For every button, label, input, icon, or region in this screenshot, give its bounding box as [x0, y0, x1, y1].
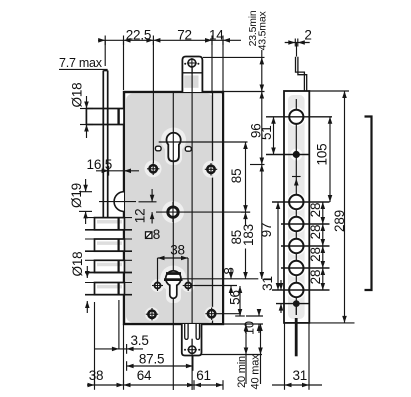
svg-text:Ø19: Ø19	[69, 183, 84, 208]
dim Ø18 top	[80, 96, 93, 138]
white halos in plate	[287, 107, 306, 299]
svg-text:28: 28	[308, 247, 323, 262]
top latch block	[182, 57, 202, 93]
svg-text:8: 8	[153, 227, 160, 242]
extension verticals from top chain	[104, 40, 106, 66]
bottom filled dot	[293, 300, 300, 307]
svg-text:87.5: 87.5	[139, 351, 164, 366]
svg-text:105: 105	[315, 144, 330, 166]
dim 2	[285, 42, 310, 44]
svg-text:31: 31	[292, 368, 307, 383]
latch centerline vertical	[191, 75, 193, 366]
plate centerline	[295, 99, 297, 315]
follower	[156, 202, 250, 222]
rod below plate	[295, 318, 298, 356]
svg-text:7.7 max: 7.7 max	[59, 56, 103, 70]
bottom dim chain	[87, 302, 224, 390]
svg-text:14: 14	[209, 27, 224, 42]
svg-text:Ø18: Ø18	[70, 83, 85, 108]
lower cylinder extension lines	[183, 278, 259, 280]
deadbolt 3	[85, 260, 132, 272]
fixing hole top-left	[147, 163, 159, 175]
svg-text:10: 10	[243, 321, 257, 335]
bottom latch screw	[184, 339, 200, 355]
svg-text:28: 28	[308, 203, 323, 218]
hole C	[289, 239, 303, 253]
faceplate plate	[284, 91, 309, 323]
lower euro cylinder	[164, 271, 183, 298]
svg-text:12: 12	[133, 209, 148, 224]
small oval holes	[155, 146, 161, 151]
svg-text:Ø18: Ø18	[70, 252, 85, 277]
roller Ø19	[99, 192, 136, 212]
hole B	[289, 217, 303, 231]
body inner light panels	[145, 128, 220, 322]
svg-text:85: 85	[229, 169, 244, 184]
svg-text:8: 8	[222, 267, 237, 274]
fixing hole bottom-right	[205, 308, 241, 320]
svg-text:183: 183	[241, 224, 256, 246]
dot hole	[293, 151, 300, 158]
right bracket	[365, 117, 372, 291]
fixing hole top-right	[205, 163, 217, 175]
svg-text:31: 31	[260, 276, 275, 291]
svg-text:28: 28	[308, 225, 323, 240]
svg-text:40 max: 40 max	[250, 354, 262, 390]
top bent tab	[296, 57, 305, 91]
svg-text:43.5max: 43.5max	[257, 11, 269, 51]
svg-text:61: 61	[196, 368, 211, 383]
hole A	[289, 195, 303, 209]
latch bolt top-left	[86, 109, 124, 125]
square-8 label	[146, 232, 152, 239]
tiny mark	[292, 176, 301, 178]
lower cylinder side holes	[152, 280, 194, 291]
svg-text:38: 38	[89, 368, 104, 383]
svg-text:28: 28	[308, 270, 323, 285]
deadbolt 1	[85, 218, 132, 230]
hole E	[289, 283, 303, 297]
svg-text:64: 64	[137, 368, 152, 383]
lock body	[124, 92, 223, 324]
top dim chain	[98, 39, 241, 41]
svg-text:51: 51	[259, 125, 274, 140]
deadbolt 4	[85, 283, 132, 295]
svg-text:2: 2	[304, 28, 311, 43]
svg-text:72: 72	[177, 27, 192, 42]
fixing hole bottom-left	[146, 308, 158, 320]
bottom latch	[182, 324, 202, 356]
upper euro cylinder	[167, 133, 181, 162]
svg-text:97: 97	[259, 223, 274, 238]
top latch screw	[184, 58, 199, 75]
svg-text:22.5: 22.5	[126, 27, 151, 42]
hole H1	[289, 110, 303, 124]
left rod (7.7 max)	[103, 71, 107, 218]
deadbolt 2	[85, 239, 132, 251]
svg-text:3.5: 3.5	[131, 333, 149, 348]
upper cylinder centerlines	[159, 141, 248, 143]
svg-text:38: 38	[170, 243, 185, 258]
hole D	[289, 261, 303, 275]
